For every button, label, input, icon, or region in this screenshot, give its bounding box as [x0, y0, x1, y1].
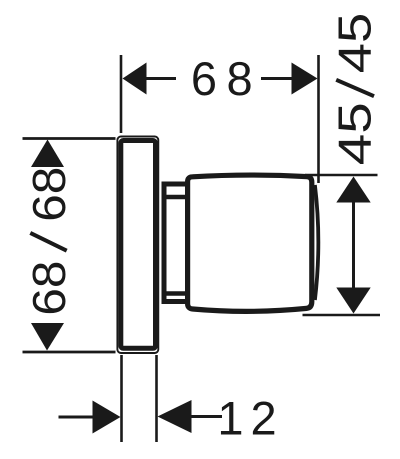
right dimension 45/45 : up arrowhead — [336, 177, 370, 203]
top dimension 68 : right arrowhead — [292, 63, 318, 95]
svg-text:45: 45 — [329, 102, 381, 165]
bottom dimension 12 : right arrowhead — [158, 400, 192, 433]
svg-text:12: 12 — [217, 392, 283, 445]
svg-text:45: 45 — [329, 13, 381, 74]
left dimension 68/68 : top extension line — [23, 137, 116, 140]
escutcheon plate front face — [121, 141, 156, 349]
bottom dimension 12 : right extension line — [155, 355, 158, 442]
top dimension 68 : left arrowhead — [123, 63, 147, 95]
bottom dimension 12 : left arrowhead — [93, 401, 121, 434]
svg-text:68: 68 — [191, 52, 262, 105]
right dimension 45/45 : top extension line — [305, 174, 378, 176]
handle front face bowed edge — [315, 185, 318, 300]
top dimension 68 : left tail line — [145, 77, 176, 80]
right dimension 45/45 : label slash — [336, 80, 374, 96]
bottom dimension 12 : left tail line — [59, 416, 95, 419]
top dimension 68 : right extension line — [317, 55, 320, 183]
left dimension 68/68 : bottom extension line — [23, 351, 116, 354]
top dimension 68 : left extension line — [120, 55, 123, 133]
bottom dimension 12 : left extension line — [120, 355, 123, 442]
stem sleeve inner bottom line — [167, 291, 188, 296]
svg-text:68: 68 — [23, 261, 75, 316]
handle body outline — [188, 175, 312, 311]
right dimension 45/45 : down arrowhead — [336, 288, 370, 314]
right dimension 45/45 : bottom extension line — [303, 314, 381, 316]
escutcheon plate back outline — [117, 137, 158, 354]
valve stem sleeve outline — [164, 184, 187, 302]
top dimension 68 : right tail line — [261, 77, 293, 80]
left dimension 68/68 : down arrowhead — [31, 323, 64, 351]
right dimension 45/45 : dimension line — [352, 198, 355, 292]
svg-text:68: 68 — [23, 167, 75, 222]
left dimension 68/68 : label slash — [30, 233, 66, 251]
bottom dimension 12 : right tail line — [190, 415, 222, 418]
stem sleeve inner top line — [167, 195, 188, 200]
left dimension 68/68 : up arrowhead — [31, 140, 64, 168]
